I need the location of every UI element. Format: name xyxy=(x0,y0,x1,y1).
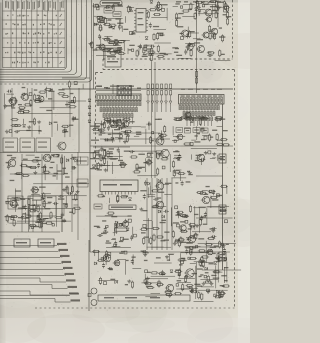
IC U2 tuner controller xyxy=(179,95,225,105)
bus wire horizontal main xyxy=(62,88,233,90)
resistor R222 xyxy=(190,291,198,293)
wire W149 xyxy=(109,126,141,128)
resistor R238 xyxy=(68,80,70,88)
resistor R154 xyxy=(153,234,155,242)
connector J4 xyxy=(219,252,226,261)
filter block box N1 xyxy=(3,138,18,152)
value label T331 xyxy=(9,216,15,217)
wire W207 xyxy=(172,126,174,135)
wire W84 xyxy=(196,9,198,17)
value label T171 xyxy=(100,132,106,133)
resistor R39 xyxy=(109,52,117,54)
diode D20 xyxy=(158,134,161,137)
value label T220 xyxy=(97,227,101,228)
value label T271 xyxy=(180,221,186,222)
potentiometer VR1 xyxy=(99,150,106,157)
node N58 xyxy=(124,251,127,254)
value label T242 xyxy=(194,141,200,142)
value label T50 xyxy=(117,23,123,24)
value label T240 xyxy=(223,130,228,131)
diode D25 xyxy=(115,221,118,224)
node N37 xyxy=(121,165,124,168)
diode D37 xyxy=(205,267,208,270)
value label T45 xyxy=(157,10,160,11)
value label T207 xyxy=(147,153,153,154)
resistor R210 xyxy=(182,283,184,291)
resistor R175 xyxy=(173,169,175,177)
node N67 xyxy=(224,259,226,261)
value label T79 xyxy=(175,3,179,4)
resistor R50 xyxy=(157,55,165,57)
capacitor C67 xyxy=(107,267,113,270)
value label T137 xyxy=(36,160,41,161)
value label T63 xyxy=(96,45,100,46)
wire W159 xyxy=(120,164,127,166)
wire W181 xyxy=(109,198,111,203)
capacitor C11 xyxy=(186,33,189,39)
wire W209 xyxy=(172,140,179,142)
resistor ladder column R5 xyxy=(165,84,168,112)
resistor R194 xyxy=(188,224,196,226)
node N68 xyxy=(195,246,197,248)
value label T288 xyxy=(185,246,191,247)
ground xyxy=(195,224,199,228)
value label T189 xyxy=(120,162,124,163)
wire stub to trunk xyxy=(196,175,223,177)
diode D30 xyxy=(190,120,193,123)
bus wire W8 xyxy=(0,251,59,253)
wire channel vertical W43 xyxy=(61,154,63,232)
IC U2 pin wire W23 xyxy=(186,121,188,126)
resistor R197 xyxy=(172,230,174,238)
wire W213 xyxy=(212,157,216,159)
resistor R118 xyxy=(104,119,112,121)
wire W274 xyxy=(98,280,118,282)
IC U3 label xyxy=(138,24,144,25)
value label T159 xyxy=(21,199,25,200)
wire W155 xyxy=(105,139,113,141)
resistor R143 xyxy=(157,152,159,160)
resistor R179 xyxy=(220,185,228,187)
wire W141 xyxy=(118,126,124,128)
resistor R199 xyxy=(97,259,105,261)
ground xyxy=(127,279,131,283)
wire connector drop xyxy=(88,240,90,311)
wire W188 xyxy=(113,223,115,236)
capacitor C57 xyxy=(183,215,189,218)
wire W284 xyxy=(7,218,9,224)
ground xyxy=(62,188,66,192)
capacitor C26 xyxy=(67,192,73,195)
wire W50 xyxy=(113,5,115,11)
value label T315 xyxy=(177,280,182,281)
transistor Q7 xyxy=(202,32,210,38)
wire W178 xyxy=(148,187,150,198)
capacitor C71 xyxy=(191,288,194,294)
wire W118 xyxy=(33,183,89,185)
value label T297 xyxy=(211,275,216,276)
value label T41 xyxy=(117,4,122,5)
wire W134 xyxy=(41,193,51,195)
wire channel vertical W42 xyxy=(41,154,43,232)
value label T119 xyxy=(69,125,74,126)
wire W161 xyxy=(103,165,110,167)
resistor R60 xyxy=(225,2,227,10)
value label T150 xyxy=(45,208,50,209)
value label T325 xyxy=(125,284,128,285)
node N9 xyxy=(119,26,121,28)
value label T268 xyxy=(203,224,208,225)
wire W263 xyxy=(180,260,187,262)
value label T72 xyxy=(142,56,148,57)
wire W243 xyxy=(94,250,96,257)
ground xyxy=(139,207,143,211)
wire W160 xyxy=(109,158,118,160)
value label T225 xyxy=(94,226,100,227)
wire W254 xyxy=(191,246,225,248)
IC U2 pin row 3 xyxy=(186,115,213,120)
wire W212 xyxy=(210,157,215,159)
resistor R245 xyxy=(50,211,52,219)
node N52 xyxy=(216,194,219,197)
wire W210 xyxy=(196,126,198,140)
node N36 xyxy=(152,132,154,134)
wire W275 xyxy=(151,293,161,295)
node N8 xyxy=(162,8,165,11)
transistor Q19 xyxy=(122,121,129,127)
node N51 xyxy=(208,151,211,154)
value label T232 xyxy=(142,210,147,211)
wire W100 xyxy=(40,107,72,109)
bus wire bundle W18 xyxy=(151,178,153,250)
value label T272 xyxy=(121,251,125,252)
value label T276 xyxy=(119,253,123,254)
wire W205 xyxy=(191,139,196,141)
resistor R225 xyxy=(190,248,192,256)
resistor R88 xyxy=(14,125,22,127)
value label T185 xyxy=(107,121,112,122)
value label T123 xyxy=(72,119,78,120)
value label T284 xyxy=(141,251,145,252)
capacitor C10 xyxy=(195,6,201,9)
wire W193 xyxy=(151,246,171,248)
wire W247 xyxy=(214,271,222,273)
value label T88 xyxy=(226,16,232,17)
wire W179 xyxy=(148,196,156,198)
value label T265 xyxy=(194,214,198,215)
value label T299 xyxy=(205,272,209,273)
value label T77 xyxy=(164,54,168,55)
value label T107 xyxy=(6,105,11,106)
resistor R221 xyxy=(218,292,226,294)
transistor Q14 xyxy=(42,154,51,162)
bus wire W10 xyxy=(0,263,62,265)
bus wire bundle W20 xyxy=(161,178,163,250)
value label T160 xyxy=(35,222,40,223)
value label T92 xyxy=(177,26,183,27)
ground xyxy=(42,218,46,222)
value label T263 xyxy=(175,215,181,216)
wire W186 xyxy=(105,215,113,217)
wire W125 xyxy=(44,218,51,220)
diode D23 xyxy=(147,182,150,185)
capacitor C1 xyxy=(104,6,110,9)
pin label T21 xyxy=(129,86,134,87)
value label T318 xyxy=(179,264,183,265)
value label T200 xyxy=(109,148,114,149)
transistor Q4 xyxy=(205,17,212,22)
resistor R72 xyxy=(73,96,75,104)
resistor R206 xyxy=(199,259,201,267)
value label T140 xyxy=(10,180,15,181)
node N39 xyxy=(162,166,165,169)
value label T282 xyxy=(167,260,170,261)
resistor R29 xyxy=(99,24,101,32)
transistor Q10 xyxy=(20,94,29,101)
wire W184 xyxy=(106,246,131,248)
value label T179 xyxy=(124,134,129,135)
value label T245 xyxy=(210,137,213,138)
ground xyxy=(89,42,93,46)
wire W108 xyxy=(57,124,59,131)
value label T227 xyxy=(141,232,146,233)
resistor R242 xyxy=(13,219,15,227)
wire xyxy=(61,155,63,232)
resistor R220 xyxy=(217,252,219,260)
value label T60 xyxy=(116,42,122,43)
ground xyxy=(62,219,66,223)
capacitor C25 xyxy=(61,212,64,218)
wire W238 xyxy=(117,259,126,261)
value label T143 xyxy=(64,173,68,174)
value label T180 xyxy=(114,129,120,130)
value label T153 xyxy=(30,205,35,206)
wire W249 xyxy=(180,288,189,290)
wire W110 xyxy=(26,154,35,156)
net label T6 xyxy=(65,273,75,276)
resistor R45 xyxy=(157,45,159,53)
resistor R157 xyxy=(140,228,148,230)
wire W54 xyxy=(106,19,111,21)
diode D16 xyxy=(56,154,59,157)
wire W94 xyxy=(215,60,231,62)
net label T37 xyxy=(193,1,198,2)
pin label T17 xyxy=(96,86,102,87)
wire W190 xyxy=(96,215,128,217)
resistor R122 xyxy=(110,126,118,128)
node N16 xyxy=(115,41,118,44)
value label T169 xyxy=(121,123,125,124)
resistor R111 xyxy=(66,186,68,194)
capacitor C16 xyxy=(21,93,27,96)
value label T64 xyxy=(117,49,123,50)
ground xyxy=(123,140,127,144)
wire xyxy=(100,138,170,140)
value label T61 xyxy=(115,44,119,45)
node N13 xyxy=(130,31,133,34)
capacitor C3 xyxy=(149,23,152,29)
wire W128 xyxy=(28,205,30,230)
diode D36 xyxy=(216,290,219,293)
diode D6 xyxy=(112,26,115,29)
diode D9 xyxy=(145,37,148,40)
value label T98 xyxy=(194,42,200,43)
value label T187 xyxy=(155,119,160,120)
node N62 xyxy=(214,294,217,297)
resistor R35 xyxy=(117,52,125,54)
value label T104 xyxy=(65,104,70,105)
value label T128 xyxy=(27,166,32,167)
wire W139 xyxy=(39,195,87,197)
ground xyxy=(99,163,103,167)
resistor R100 xyxy=(73,207,81,209)
wire W236 xyxy=(192,231,211,233)
resistor R200 xyxy=(106,250,108,258)
wire W222 xyxy=(179,173,181,181)
capacitor C53 xyxy=(181,181,184,187)
value label T260 xyxy=(206,186,210,187)
wire W55 xyxy=(125,16,127,23)
net label T33 xyxy=(90,158,99,159)
value label T250 xyxy=(196,155,202,156)
node N17 xyxy=(110,49,113,52)
value label T76 xyxy=(148,55,153,56)
resistor R172 xyxy=(220,139,228,141)
wire W81 xyxy=(201,9,205,11)
wire pair b xyxy=(154,62,156,178)
value label T231 xyxy=(161,240,166,241)
transistor Q23 xyxy=(155,201,164,209)
resistor R47 xyxy=(143,46,145,54)
value label T230 xyxy=(164,232,169,233)
wire W201 xyxy=(216,117,218,122)
wire W267 xyxy=(197,289,228,291)
wire W126 xyxy=(31,194,40,196)
capacitor C17 xyxy=(15,98,18,104)
capacitor C2 xyxy=(129,6,132,12)
resistor R196 xyxy=(176,211,184,213)
capacitor C39 xyxy=(117,147,120,153)
resistor R73 xyxy=(39,91,47,93)
resistor R228 xyxy=(99,277,101,285)
capacitor C62 xyxy=(211,235,217,238)
ground xyxy=(37,120,41,124)
capacitor C37 xyxy=(146,123,152,126)
transistor Q5 xyxy=(180,30,189,37)
wire W63 xyxy=(110,40,118,42)
value label T168 xyxy=(106,121,110,122)
resistor R134 xyxy=(93,151,95,159)
ground xyxy=(173,242,177,246)
wire xyxy=(93,132,160,134)
value label T292 xyxy=(194,284,200,285)
value label T236 xyxy=(219,119,225,120)
node N57 xyxy=(177,224,180,227)
wire W241 xyxy=(132,254,134,265)
value label T223 xyxy=(102,220,106,221)
diode D33 xyxy=(187,237,190,240)
wire W64 xyxy=(102,37,106,39)
value label T96 xyxy=(176,55,182,56)
ground xyxy=(202,282,206,286)
wire W239 xyxy=(132,268,141,270)
value label T177 xyxy=(136,134,141,135)
capacitor C30 xyxy=(66,185,69,191)
value label T57 xyxy=(158,33,164,34)
resistor R236 xyxy=(158,273,166,275)
transistor Q10 xyxy=(57,142,67,150)
label box PC1017 xyxy=(100,1,122,6)
node N69 xyxy=(219,257,222,260)
resistor R78 xyxy=(22,110,30,112)
wire W174 xyxy=(169,154,171,172)
ground xyxy=(3,104,7,108)
node N6 xyxy=(97,7,99,9)
value label T114 xyxy=(37,95,40,96)
resistor R85 xyxy=(11,119,19,121)
label box T27 xyxy=(185,128,191,133)
value label T135 xyxy=(72,167,76,168)
net label T7 xyxy=(66,279,76,281)
bus wire bundle W19 xyxy=(156,178,158,250)
resistor R131 xyxy=(104,149,106,157)
ground xyxy=(143,253,147,257)
wire W191 xyxy=(145,228,152,230)
wire W225 xyxy=(207,206,229,208)
capacitor C6 xyxy=(139,44,142,50)
capacitor C20 xyxy=(72,116,75,122)
resistor R52 xyxy=(190,2,192,10)
value label T306 xyxy=(186,242,192,243)
wire stub U1 xyxy=(112,84,114,94)
wire W52 xyxy=(166,8,168,21)
wire W69 xyxy=(100,36,102,45)
value label T253 xyxy=(187,171,190,172)
wire W127 xyxy=(15,199,17,208)
wire W53 xyxy=(151,17,167,19)
value label T175 xyxy=(118,133,123,134)
node N43 xyxy=(120,223,123,226)
IC U1 pin wire W36 xyxy=(119,118,121,125)
wire W268 xyxy=(196,262,198,293)
label box 2CX1 xyxy=(77,157,88,165)
value label T302 xyxy=(200,265,203,266)
net label T32 xyxy=(90,152,99,153)
resistor ladder column R6 xyxy=(169,84,172,112)
capacitor C74 xyxy=(223,248,226,254)
wire W270 xyxy=(178,277,195,279)
ground xyxy=(211,229,215,233)
resistor R36 xyxy=(91,41,93,49)
resistor R192 xyxy=(189,205,191,213)
IC U2 pin wire W28 xyxy=(204,121,206,126)
wire W86 xyxy=(198,13,219,15)
resistor R43 xyxy=(103,39,111,41)
resistor R161 xyxy=(175,118,183,120)
resistor R109 xyxy=(37,205,39,213)
value label T314 xyxy=(181,242,186,243)
node N66 xyxy=(188,257,190,259)
value label T69 xyxy=(147,48,152,49)
resistor R20 xyxy=(149,9,157,11)
resistor R119 xyxy=(116,119,118,127)
wire W137 xyxy=(15,188,17,212)
value label T322 xyxy=(209,263,214,264)
resistor R129 xyxy=(97,162,99,170)
net label T9 xyxy=(69,292,79,294)
wire W220 xyxy=(176,169,182,171)
wire W114 xyxy=(56,164,58,180)
